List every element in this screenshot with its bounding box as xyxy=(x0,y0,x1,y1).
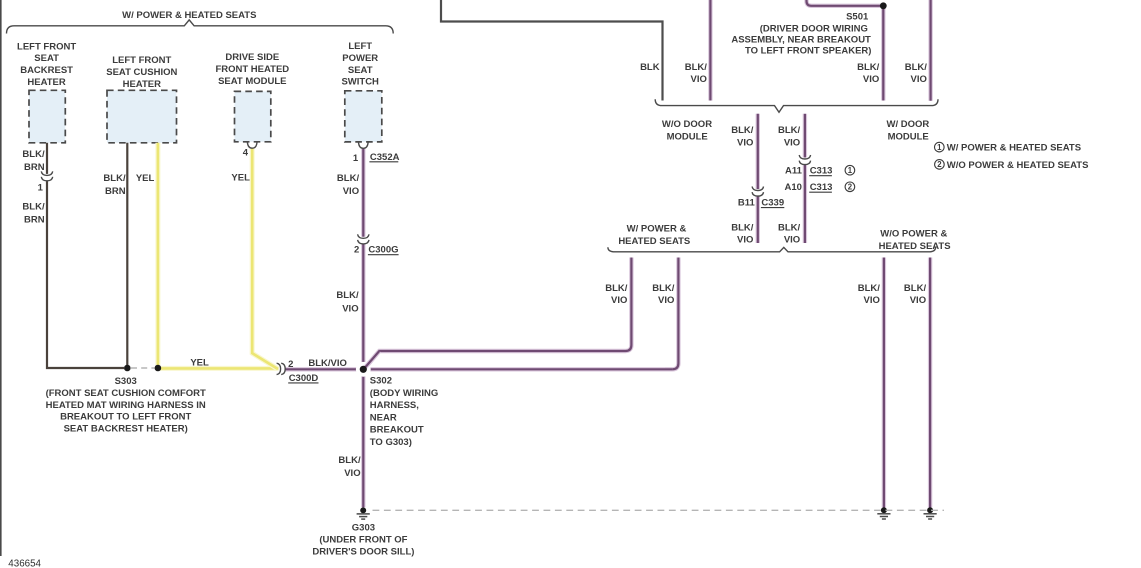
svg-text:HEATED SEATS: HEATED SEATS xyxy=(879,241,951,252)
svg-text:HEATER: HEATER xyxy=(27,77,65,88)
svg-text:HEATED MAT WIRING HARNESS IN: HEATED MAT WIRING HARNESS IN xyxy=(46,400,206,411)
svg-text:4: 4 xyxy=(243,148,249,159)
svg-text:C300G: C300G xyxy=(368,245,398,256)
svg-text:BLK/: BLK/ xyxy=(905,62,928,73)
svg-text:(BODY WIRING: (BODY WIRING xyxy=(370,388,438,399)
svg-text:HARNESS,: HARNESS, xyxy=(370,400,419,411)
svg-text:S501: S501 xyxy=(846,12,869,23)
svg-text:W/O DOOR: W/O DOOR xyxy=(662,119,712,130)
svg-text:SEAT BACKREST HEATER): SEAT BACKREST HEATER) xyxy=(64,424,188,435)
svg-text:VIO: VIO xyxy=(737,235,753,246)
svg-text:VIO: VIO xyxy=(784,137,800,148)
svg-text:(UNDER FRONT OF: (UNDER FRONT OF xyxy=(319,534,407,545)
svg-text:BACKREST: BACKREST xyxy=(20,65,73,76)
svg-text:W/ POWER &: W/ POWER & xyxy=(627,224,687,235)
svg-text:HEATED SEATS: HEATED SEATS xyxy=(618,236,690,247)
svg-text:SEAT: SEAT xyxy=(34,53,59,64)
svg-text:NEAR: NEAR xyxy=(370,412,397,423)
svg-text:W/O POWER &: W/O POWER & xyxy=(880,229,947,240)
svg-text:POWER: POWER xyxy=(342,53,378,64)
svg-text:LEFT: LEFT xyxy=(348,41,372,52)
svg-text:C352A: C352A xyxy=(370,152,400,163)
svg-text:SEAT: SEAT xyxy=(348,65,373,76)
svg-text:HEATER: HEATER xyxy=(123,79,161,90)
svg-text:BLK/: BLK/ xyxy=(778,125,801,136)
svg-text:BLK/: BLK/ xyxy=(858,283,881,294)
svg-text:1: 1 xyxy=(38,182,44,193)
svg-text:YEL: YEL xyxy=(231,173,250,184)
svg-text:BRN: BRN xyxy=(105,186,126,197)
svg-text:FRONT HEATED: FRONT HEATED xyxy=(215,64,289,75)
svg-text:ASSEMBLY, NEAR BREAKOUT: ASSEMBLY, NEAR BREAKOUT xyxy=(731,34,871,45)
svg-text:BRN: BRN xyxy=(24,162,45,173)
svg-text:S303: S303 xyxy=(115,376,137,387)
svg-text:VIO: VIO xyxy=(658,295,674,306)
svg-text:BLK/: BLK/ xyxy=(857,62,880,73)
svg-text:MODULE: MODULE xyxy=(888,132,929,143)
svg-text:VIO: VIO xyxy=(342,303,358,314)
svg-text:DRIVER'S DOOR SILL): DRIVER'S DOOR SILL) xyxy=(312,546,414,557)
svg-text:C339: C339 xyxy=(761,198,784,209)
svg-text:W/ DOOR: W/ DOOR xyxy=(887,119,930,130)
svg-text:2: 2 xyxy=(354,245,359,256)
svg-text:G303: G303 xyxy=(352,523,375,534)
svg-text:VIO: VIO xyxy=(611,295,627,306)
svg-text:DRIVE SIDE: DRIVE SIDE xyxy=(225,52,279,63)
svg-text:(DRIVER DOOR WIRING: (DRIVER DOOR WIRING xyxy=(760,24,868,35)
svg-text:BLK/: BLK/ xyxy=(904,283,927,294)
svg-text:LEFT FRONT: LEFT FRONT xyxy=(112,55,171,66)
svg-text:(FRONT SEAT CUSHION COMFORT: (FRONT SEAT CUSHION COMFORT xyxy=(46,388,206,399)
svg-text:C300D: C300D xyxy=(289,373,319,384)
svg-text:VIO: VIO xyxy=(737,137,753,148)
svg-text:S302: S302 xyxy=(370,376,392,387)
svg-text:LEFT FRONT: LEFT FRONT xyxy=(17,41,76,52)
svg-text:BLK/: BLK/ xyxy=(103,173,126,184)
svg-text:2: 2 xyxy=(937,160,942,169)
svg-text:VIO: VIO xyxy=(343,186,359,197)
svg-text:BLK/: BLK/ xyxy=(685,62,708,73)
svg-text:A11: A11 xyxy=(785,166,803,177)
svg-text:BLK/: BLK/ xyxy=(22,149,45,160)
svg-text:VIO: VIO xyxy=(344,468,360,479)
svg-text:BLK/: BLK/ xyxy=(22,202,45,213)
svg-text:1: 1 xyxy=(848,166,853,175)
svg-text:MODULE: MODULE xyxy=(667,132,708,143)
svg-text:2: 2 xyxy=(288,359,293,370)
svg-text:TO LEFT FRONT SPEAKER): TO LEFT FRONT SPEAKER) xyxy=(745,46,872,57)
svg-text:YEL: YEL xyxy=(190,357,209,368)
svg-text:A10: A10 xyxy=(784,182,801,193)
svg-text:1: 1 xyxy=(353,153,359,164)
svg-text:VIO: VIO xyxy=(784,235,800,246)
svg-text:BLK/: BLK/ xyxy=(337,173,360,184)
svg-text:W/O POWER & HEATED SEATS: W/O POWER & HEATED SEATS xyxy=(947,160,1089,171)
svg-text:TO G303): TO G303) xyxy=(370,437,412,448)
svg-text:BLK/VIO: BLK/VIO xyxy=(308,358,347,369)
svg-text:W/ POWER & HEATED SEATS: W/ POWER & HEATED SEATS xyxy=(122,10,256,21)
svg-text:SEAT CUSHION: SEAT CUSHION xyxy=(106,67,177,78)
svg-text:2: 2 xyxy=(848,183,853,192)
svg-text:SEAT MODULE: SEAT MODULE xyxy=(218,76,286,87)
svg-text:SWITCH: SWITCH xyxy=(341,77,379,88)
svg-text:1: 1 xyxy=(937,143,942,152)
svg-text:BLK/: BLK/ xyxy=(731,125,754,136)
svg-text:BLK/: BLK/ xyxy=(605,283,628,294)
svg-text:BLK/: BLK/ xyxy=(336,290,359,301)
svg-text:YEL: YEL xyxy=(136,173,155,184)
svg-text:BLK: BLK xyxy=(640,62,660,73)
svg-text:B11: B11 xyxy=(738,198,756,209)
svg-text:BLK/: BLK/ xyxy=(652,283,675,294)
svg-text:VIO: VIO xyxy=(864,295,880,306)
svg-text:BLK/: BLK/ xyxy=(778,223,801,234)
svg-text:BLK/: BLK/ xyxy=(338,455,361,466)
svg-text:VIO: VIO xyxy=(911,74,927,85)
svg-text:436654: 436654 xyxy=(8,558,41,568)
svg-text:VIO: VIO xyxy=(691,74,707,85)
svg-text:W/ POWER & HEATED SEATS: W/ POWER & HEATED SEATS xyxy=(947,143,1081,154)
svg-text:BRN: BRN xyxy=(24,215,45,226)
svg-text:VIO: VIO xyxy=(863,74,879,85)
svg-text:VIO: VIO xyxy=(910,295,926,306)
svg-text:C313: C313 xyxy=(810,166,833,177)
svg-text:BREAKOUT TO LEFT FRONT: BREAKOUT TO LEFT FRONT xyxy=(60,412,191,423)
svg-text:C313: C313 xyxy=(810,182,833,193)
svg-text:BLK/: BLK/ xyxy=(731,223,754,234)
svg-text:BREAKOUT: BREAKOUT xyxy=(370,425,424,436)
